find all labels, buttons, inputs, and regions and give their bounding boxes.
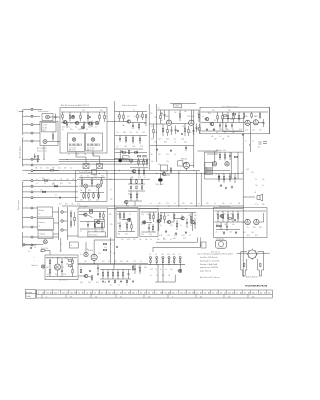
- label bildrohr sect: [216, 149, 226, 152]
- wire tonzf signal: [201, 122, 245, 124]
- svg-text:22n: 22n: [157, 239, 160, 241]
- label line2: [110, 285, 128, 287]
- svg-text:47: 47: [108, 261, 110, 263]
- wire from T8: [32, 170, 35, 172]
- svg-text:0,22: 0,22: [230, 214, 233, 216]
- svg-text:E: E: [26, 114, 27, 116]
- svg-text:0,47: 0,47: [127, 116, 130, 118]
- capacitor C2: [34, 154, 36, 160]
- resistor R48: [229, 174, 230, 183]
- wire tonzf top rail: [201, 111, 268, 113]
- ground g4: [242, 133, 244, 136]
- capacitor C3b: [72, 115, 74, 118]
- node term pw1: [23, 244, 25, 246]
- svg-text:15k: 15k: [180, 108, 183, 110]
- transistor Q13: [166, 220, 170, 223]
- pot P2: [61, 220, 68, 222]
- wire from T6: [33, 158, 40, 160]
- label vert1: [80, 199, 99, 201]
- transistor Q3: [87, 122, 91, 125]
- wire v11 up: [85, 242, 87, 252]
- svg-text:S: S: [26, 163, 27, 165]
- label table cell 15: [94, 292, 96, 294]
- wire tc rail3: [150, 145, 194, 147]
- resistor RW1: [42, 178, 48, 181]
- svg-text:G: G: [26, 216, 27, 218]
- label rotated group2: [18, 200, 20, 210]
- wire diode row bus: [148, 264, 185, 266]
- label DR1: [149, 254, 151, 256]
- label value v110: [114, 261, 117, 263]
- label value v138: [174, 203, 176, 205]
- wire bus y264.7: [78, 264, 185, 266]
- label value v87: [180, 225, 182, 227]
- plus mark: [34, 257, 35, 263]
- svg-text:2,2k: 2,2k: [141, 214, 144, 216]
- node terminal T8: [23, 170, 34, 172]
- label value v112: [126, 261, 129, 263]
- resistor RX1: [103, 243, 106, 244]
- wire vert signal: [79, 185, 84, 187]
- wire table tick2 9: [247, 294, 249, 298]
- label Bu connector: [174, 104, 182, 108]
- label aud1: [216, 231, 233, 233]
- label value v104: [70, 267, 73, 269]
- svg-text:47: 47: [80, 254, 82, 256]
- svg-text:220: 220: [91, 123, 94, 125]
- tube VB1: [212, 162, 216, 166]
- resistor R14: [138, 122, 139, 130]
- label table cell 5: [54, 292, 57, 294]
- label value v5: [212, 110, 215, 112]
- tube V5 sound: [245, 120, 250, 125]
- wire vline x193: [193, 110, 195, 168]
- label table cell 58: [264, 292, 266, 294]
- resistor R47: [223, 174, 224, 184]
- svg-text:2n: 2n: [52, 258, 54, 260]
- resistor R37: [243, 112, 244, 119]
- transistor Q13b: [156, 213, 160, 232]
- svg-text:10n: 10n: [232, 224, 235, 226]
- svg-text:2n: 2n: [214, 203, 216, 205]
- capacitor C1: [55, 114, 57, 122]
- node junction J31: [114, 264, 115, 265]
- svg-text:55: 55: [204, 292, 206, 294]
- resistor R10: [119, 112, 120, 122]
- label table row2 3: [95, 297, 97, 299]
- wire table tick 49: [226, 290, 228, 294]
- ground g6: [231, 186, 233, 189]
- node terminal T1: [23, 108, 34, 110]
- label ps below: [59, 279, 68, 282]
- svg-text:1k: 1k: [174, 154, 176, 156]
- svg-text:15k: 15k: [71, 204, 74, 206]
- resistor R64: [119, 212, 120, 220]
- label value v84: [194, 215, 197, 217]
- node junction J11: [67, 159, 68, 160]
- label value v105: [80, 254, 82, 256]
- wire spk: [243, 196, 255, 198]
- resistor R91: [117, 270, 118, 280]
- svg-text:680: 680: [88, 190, 91, 192]
- label value v140: [190, 203, 193, 205]
- label T6: [26, 157, 27, 159]
- resistor R65: [123, 212, 124, 220]
- ground gb1: [218, 175, 220, 178]
- label value v156: [245, 141, 247, 143]
- label table cell 4: [50, 292, 53, 294]
- wire vline x67.4: [66, 207, 68, 240]
- label table cell 30: [152, 292, 154, 294]
- svg-text:56k: 56k: [161, 254, 164, 256]
- label table row2 2: [70, 297, 72, 299]
- resistor R38: [251, 112, 252, 119]
- label value v78: [149, 224, 151, 226]
- box vert top conn: [92, 170, 97, 175]
- svg-text:15k: 15k: [251, 232, 254, 234]
- capacitor C7: [119, 136, 121, 143]
- resistor RT2: [188, 126, 189, 136]
- wire yoke L1: [156, 237, 198, 242]
- svg-text:15k: 15k: [149, 234, 152, 236]
- svg-text:N: N: [26, 235, 27, 237]
- resistor RB3: [234, 156, 237, 157]
- svg-text:K52: K52: [54, 292, 57, 294]
- resistor R8: [104, 112, 105, 122]
- svg-text:204: 204: [62, 292, 65, 294]
- label value v65: [110, 189, 112, 191]
- svg-text:1k: 1k: [110, 189, 112, 191]
- resistor RL88: [114, 280, 115, 283]
- node terminal T17: [23, 244, 34, 246]
- label T7: [26, 163, 27, 165]
- wire q15: [78, 276, 92, 278]
- label tb left r1: [26, 291, 32, 294]
- transistor QA1: [219, 214, 223, 217]
- label value v36: [230, 119, 233, 121]
- label value v60: [101, 176, 104, 178]
- svg-text:5: 5: [256, 292, 257, 294]
- node junction J30: [94, 263, 95, 264]
- label table cell 8: [66, 292, 68, 294]
- svg-text:2,2k: 2,2k: [68, 183, 71, 185]
- label table cell 14: [90, 292, 92, 294]
- label legend line1: [198, 253, 234, 256]
- svg-text:10n: 10n: [151, 161, 154, 163]
- svg-text:100: 100: [58, 167, 61, 169]
- label table cell 59: [268, 292, 270, 294]
- label table cell 55: [252, 292, 255, 294]
- coil K1 hatch: [70, 144, 82, 147]
- resistor R86: [72, 266, 73, 277]
- label value v97: [52, 258, 54, 260]
- label value v166: [255, 179, 257, 181]
- box konv label plate: [88, 232, 105, 237]
- label value v154: [163, 239, 166, 241]
- svg-text:2n: 2n: [80, 230, 82, 232]
- svg-text:R: R: [26, 206, 27, 208]
- svg-text:0,22: 0,22: [98, 253, 101, 255]
- wire grid mid: [128, 183, 145, 185]
- svg-text:8,2: 8,2: [224, 132, 226, 134]
- resistor R30: [217, 112, 218, 123]
- wire from T1: [33, 108, 42, 110]
- label value v6: [228, 110, 231, 112]
- label value v85: [160, 225, 162, 227]
- label value v0: [82, 110, 85, 112]
- label value v44: [70, 167, 72, 169]
- wire audio rail: [215, 210, 267, 212]
- capacitor C11: [185, 146, 187, 152]
- svg-text:100: 100: [80, 190, 83, 192]
- capacitor CT1: [171, 126, 173, 135]
- wire table tick 9: [68, 290, 70, 294]
- svg-text:100: 100: [66, 179, 69, 181]
- label value v31: [158, 164, 161, 166]
- svg-text:470: 470: [183, 238, 186, 240]
- label table cell 37: [180, 292, 183, 294]
- label IF r1: [62, 127, 97, 129]
- label T4: [26, 131, 27, 133]
- svg-text:gegen Chassis: gegen Chassis: [200, 270, 211, 272]
- svg-text:56k: 56k: [35, 167, 38, 169]
- label value v58: [87, 176, 89, 178]
- wire bus y161.5: [59, 161, 147, 163]
- label table row2 5: [148, 297, 150, 299]
- box osc module 2: [140, 208, 158, 236]
- resistor R90: [112, 270, 113, 280]
- ground gt2: [213, 128, 215, 131]
- label legend line4: [200, 263, 218, 266]
- svg-text:220: 220: [214, 139, 217, 141]
- label table cell 29: [148, 292, 150, 294]
- node CRT dot: [263, 253, 264, 254]
- node junction J22: [114, 173, 115, 174]
- transistor Q4: [126, 120, 130, 123]
- label IF section title: [61, 104, 89, 107]
- wire left bus brace2: [23, 182, 24, 228]
- label CRT: [246, 276, 258, 279]
- ground gl1: [97, 273, 99, 276]
- svg-text:C4: C4: [98, 292, 100, 294]
- svg-text:47: 47: [170, 239, 172, 241]
- svg-text:15k: 15k: [110, 199, 113, 201]
- tube V1 video out: [166, 120, 171, 125]
- resistor R34: [238, 112, 239, 123]
- box audio section: [214, 208, 268, 238]
- resistor R33: [233, 112, 234, 123]
- label table cell 48: [224, 292, 226, 294]
- label table cell 53: [244, 292, 246, 294]
- wire video top rail: [115, 111, 147, 113]
- resistor R69: [153, 212, 154, 222]
- wire table tick 43: [202, 290, 204, 294]
- label DR3: [161, 254, 164, 256]
- svg-text:0,47: 0,47: [125, 223, 128, 225]
- resistor RB1: [219, 152, 220, 160]
- box filter F1: [83, 164, 89, 169]
- svg-text:77: 77: [116, 292, 118, 294]
- svg-text:220: 220: [92, 154, 95, 156]
- resistor R50: [81, 178, 82, 188]
- diode DR4: [168, 257, 170, 265]
- label T17: [26, 243, 27, 245]
- label value v57: [80, 176, 83, 178]
- node junction J15: [131, 178, 132, 179]
- svg-text:330: 330: [120, 261, 123, 263]
- wire V1 up: [168, 110, 170, 120]
- wire top connector: [170, 103, 196, 105]
- label value v7: [150, 113, 153, 115]
- node junction J32: [135, 264, 136, 265]
- label delay: [123, 158, 125, 160]
- wire from T13: [33, 207, 37, 209]
- label value v18: [189, 132, 192, 134]
- label value v107: [98, 253, 101, 255]
- svg-text:5n: 5n: [160, 225, 162, 227]
- label value v56: [68, 183, 71, 185]
- svg-text:C31: C31: [151, 139, 154, 141]
- capacitor CT3: [177, 130, 179, 133]
- coil K2 hatch: [88, 144, 100, 147]
- label value v93: [216, 224, 219, 226]
- svg-text:R12: R12: [163, 239, 166, 241]
- wire IF bottom stub2: [93, 152, 100, 164]
- svg-text:15k: 15k: [133, 146, 136, 148]
- label value v96: [46, 258, 49, 260]
- label aud2: [244, 232, 254, 234]
- capacitor CX1: [116, 246, 119, 248]
- resistor RS1: [137, 156, 140, 157]
- label elco: [156, 184, 164, 186]
- node junction J10: [44, 159, 45, 160]
- resistor R77: [222, 211, 223, 222]
- svg-text:680: 680: [123, 132, 126, 134]
- wire table tick2 1: [41, 294, 43, 298]
- svg-text:10n: 10n: [117, 223, 120, 225]
- svg-text:2,2k: 2,2k: [181, 139, 184, 141]
- svg-text:0,1: 0,1: [84, 123, 86, 125]
- svg-text:680: 680: [52, 167, 55, 169]
- node terminal T11: [23, 191, 34, 193]
- svg-text:C31: C31: [104, 247, 107, 249]
- resistor R67: [131, 221, 132, 231]
- svg-text:B1: B1: [26, 123, 28, 125]
- box delay line: [123, 156, 130, 160]
- label value v3: [158, 108, 160, 110]
- label value v41: [52, 167, 55, 169]
- svg-text:15k: 15k: [84, 261, 87, 263]
- label T8: [26, 169, 27, 171]
- wire table tick 1: [36, 290, 38, 294]
- svg-text:1M: 1M: [224, 224, 226, 226]
- wire osc2 sig: [146, 221, 152, 223]
- label value v115: [132, 267, 135, 269]
- wire reg3 conn: [53, 233, 59, 235]
- svg-text:C4: C4: [216, 292, 218, 294]
- label value v28: [166, 154, 169, 156]
- rh R35: [223, 115, 226, 116]
- svg-text:B3: B3: [240, 292, 242, 294]
- label table cell 3: [46, 292, 49, 294]
- wire reg conn1: [53, 211, 59, 213]
- capacitor C8: [121, 150, 123, 153]
- capacitor C10: [196, 124, 198, 133]
- label value v142: [206, 203, 209, 205]
- svg-text:1n: 1n: [160, 215, 162, 217]
- label value v45: [36, 179, 38, 181]
- svg-text:470: 470: [125, 146, 128, 148]
- resistor RV1: [122, 152, 125, 153]
- label value v76: [153, 214, 156, 216]
- svg-text:8,2: 8,2: [62, 267, 64, 269]
- tube V8 audio: [254, 219, 259, 224]
- svg-text:220: 220: [158, 203, 161, 205]
- label value v72: [117, 223, 120, 225]
- label value v163: [241, 172, 244, 174]
- svg-text:5n: 5n: [34, 247, 36, 249]
- svg-text:1n: 1n: [174, 203, 176, 205]
- label DR5: [173, 254, 176, 256]
- resistor R46: [218, 174, 219, 183]
- label value v117: [144, 267, 147, 269]
- label value v27: [158, 154, 161, 156]
- svg-text:100: 100: [46, 267, 49, 269]
- resistor RT1: [167, 126, 168, 136]
- svg-text:47: 47: [158, 108, 160, 110]
- box main table: [37, 290, 273, 298]
- svg-text:77: 77: [236, 292, 238, 294]
- label value v77: [141, 224, 143, 226]
- svg-text:0,1: 0,1: [87, 176, 89, 178]
- fuse F1: [41, 250, 50, 255]
- tube VB2: [225, 162, 229, 166]
- label value v10: [174, 112, 177, 114]
- label T9: [26, 179, 27, 181]
- svg-text:470: 470: [96, 282, 99, 284]
- node junction J21: [114, 170, 115, 171]
- svg-text:5n: 5n: [134, 116, 136, 118]
- label damper: [202, 245, 204, 247]
- svg-text:47: 47: [189, 235, 191, 237]
- wire grid mid2: [128, 190, 145, 192]
- svg-text:E19: E19: [228, 292, 231, 294]
- label value v21: [122, 125, 125, 127]
- wire konv rail: [79, 211, 106, 213]
- resistor R24: [184, 124, 185, 137]
- resistor R7: [99, 112, 100, 122]
- svg-text:Normal-Super: Normal-Super: [19, 146, 22, 159]
- label value v137: [166, 203, 169, 205]
- node junction J23: [128, 206, 129, 207]
- ground g7: [165, 230, 167, 233]
- svg-text:330: 330: [194, 215, 197, 217]
- label value v61: [80, 190, 83, 192]
- svg-text:79: 79: [228, 297, 230, 299]
- svg-text:VHF-Kanalw.: VHF-Kanalw.: [38, 111, 49, 113]
- label value v111: [120, 261, 123, 263]
- svg-text:LS: LS: [254, 192, 256, 194]
- svg-text:0,47: 0,47: [216, 132, 219, 134]
- svg-text:100: 100: [206, 203, 209, 205]
- svg-text:1k: 1k: [69, 127, 71, 129]
- label tonzf1: [213, 129, 242, 131]
- label value v159: [253, 227, 256, 229]
- box tonzf inner: [223, 118, 244, 131]
- wire corner box: [155, 275, 175, 282]
- svg-text:12k: 12k: [139, 239, 142, 241]
- wire IF out right: [107, 121, 115, 123]
